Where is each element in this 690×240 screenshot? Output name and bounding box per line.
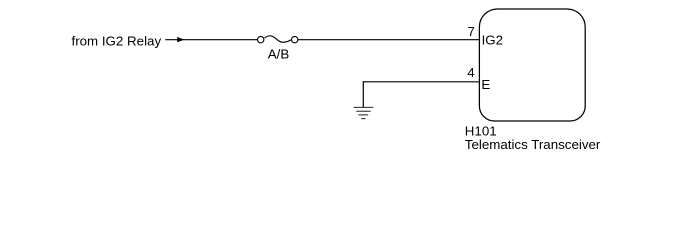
wire: connector B to pin 7 of H101: [298, 39, 480, 41]
svg-text:E: E: [481, 77, 490, 92]
wire: ground branch to pin 4 of H101: [363, 81, 479, 83]
svg-text:IG2: IG2: [482, 33, 503, 48]
connector terminal circle A: [258, 36, 264, 42]
wire: arrow lead from label to connector A: [165, 39, 257, 41]
svg-text:4: 4: [467, 65, 475, 80]
svg-text:Telematics Transceiver: Telematics Transceiver: [465, 137, 601, 152]
component H101 Telematics Transceiver box: [479, 9, 585, 121]
svg-text:7: 7: [468, 24, 475, 39]
wire: vertical drop to ground: [362, 81, 364, 107]
svg-text:A/B: A/B: [268, 47, 290, 62]
ground symbol: [354, 107, 374, 118]
connector terminal circle B: [292, 36, 298, 42]
connector wavy link A/B: [265, 36, 291, 42]
svg-text:from IG2 Relay: from IG2 Relay: [72, 34, 162, 49]
arrowhead on wire: [177, 37, 184, 42]
